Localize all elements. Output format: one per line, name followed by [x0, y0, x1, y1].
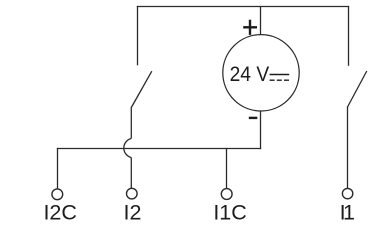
svg-text:I1: I1 [340, 201, 355, 225]
svg-text:I2: I2 [123, 201, 141, 225]
wire bus stub to terminal I1C [226, 148, 228, 189]
DC symbol dashed line [270, 79, 290, 81]
terminal I1 circle [342, 188, 352, 198]
wire source top lead [260, 6, 262, 35]
terminal I2 circle [127, 188, 138, 199]
wire right drop to switch fixed contact [348, 6, 350, 66]
wire switch to terminal I1 [347, 106, 349, 188]
wire source bottom lead [260, 111, 262, 150]
wire left drop to switch fixed contact [137, 6, 139, 65]
svg-text:I1C: I1C [213, 201, 246, 225]
wire bus left drop to terminal I2C [57, 148, 59, 189]
svg-text:I2C: I2C [43, 201, 76, 225]
switch blade (right, I1 branch) [348, 71, 367, 107]
switch blade (left, I2 branch) [131, 71, 152, 107]
terminal I1C circle [221, 189, 232, 200]
wire hop to terminal I2 [130, 158, 132, 189]
DC symbol solid line [270, 74, 290, 76]
wire top bus [137, 6, 349, 8]
wire hop over bottom bus [124, 138, 131, 157]
polarity minus sign [249, 117, 257, 119]
polarity plus sign [243, 20, 257, 35]
svg-text:24 V: 24 V [230, 62, 270, 86]
terminal I2C circle [52, 189, 63, 200]
voltage source circle 24V [223, 35, 299, 111]
wire bottom bus [57, 148, 261, 150]
wire switch to hop [130, 107, 132, 138]
